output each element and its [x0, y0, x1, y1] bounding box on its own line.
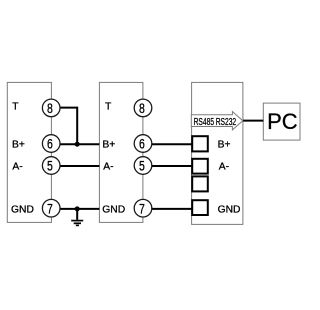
wire U2 pin5 to U3 A- terminal: [152, 165, 193, 167]
svg-text:GND: GND: [102, 205, 125, 216]
U1 pin 8: [42, 99, 60, 117]
svg-text:7: 7: [139, 201, 145, 217]
U3 terminal block unused: [192, 176, 208, 191]
label U3 A-: [219, 162, 229, 173]
label U1 T: [12, 102, 19, 113]
U2 pin 7: [134, 199, 152, 217]
label PC: [267, 109, 298, 134]
label U2 A-: [103, 162, 113, 173]
svg-text:6: 6: [139, 136, 145, 152]
wire U2 pin6 to U3 B+ terminal: [152, 143, 193, 145]
label U3 GND: [218, 205, 241, 216]
label U1 B+: [12, 139, 25, 150]
label RS232: [216, 115, 237, 127]
svg-text:B+: B+: [102, 139, 115, 150]
svg-text:GND: GND: [11, 205, 34, 216]
module box U1 (left transmitter): [7, 82, 51, 222]
svg-text:B+: B+: [218, 139, 231, 150]
svg-text:8: 8: [139, 101, 145, 117]
svg-text:GND: GND: [218, 205, 241, 216]
label U1 GND: [11, 205, 34, 216]
junction dot node GND: [75, 206, 80, 211]
svg-text:T: T: [12, 102, 19, 113]
wire U1 pin8 to B+ net: [60, 108, 78, 145]
label U3 B+: [218, 139, 231, 150]
wire U2 pin7 to U3 GND terminal: [152, 208, 193, 210]
module box U3 (RS485/RS232 converter): [192, 82, 243, 224]
svg-text:PC: PC: [267, 109, 298, 134]
svg-text:7: 7: [47, 201, 53, 217]
label U1 A-: [12, 162, 22, 173]
U1 pin 6: [42, 135, 60, 153]
svg-text:T: T: [105, 102, 112, 113]
U3 terminal block A-: [192, 159, 208, 174]
label U2 B+: [102, 139, 115, 150]
wire U3 RS232 to PC: [243, 120, 263, 122]
U3 terminal block B+: [192, 136, 208, 151]
U3 terminal block GND: [192, 200, 208, 215]
ground symbol: [71, 209, 83, 226]
svg-text:RS485: RS485: [194, 115, 215, 127]
wire U1 pin6 B+ to U2: [60, 143, 100, 145]
wire U1 pin7 GND to U2: [60, 208, 100, 210]
svg-text:A-: A-: [103, 162, 113, 173]
svg-text:A-: A-: [219, 162, 229, 173]
svg-text:5: 5: [139, 158, 145, 174]
svg-text:8: 8: [47, 101, 53, 117]
svg-text:A-: A-: [12, 162, 22, 173]
U1 pin 7: [42, 199, 60, 217]
svg-text:5: 5: [47, 158, 53, 174]
U2 pin 6: [134, 135, 152, 153]
junction dot node B+: [75, 142, 80, 147]
label U2 GND: [102, 205, 125, 216]
label U2 T: [105, 102, 112, 113]
module box U2 (middle transmitter): [99, 82, 142, 222]
svg-text:6: 6: [47, 136, 53, 152]
U2 pin 8: [134, 99, 152, 117]
label RS485: [194, 115, 215, 127]
svg-text:B+: B+: [12, 139, 25, 150]
svg-text:RS232: RS232: [216, 115, 237, 127]
PC box: [263, 103, 300, 140]
RS485 to RS232 block arrow: [191, 112, 243, 130]
U1 pin 5: [42, 157, 60, 175]
wire U1 pin5 A- to U2: [60, 165, 100, 167]
U2 pin 5: [134, 157, 152, 175]
